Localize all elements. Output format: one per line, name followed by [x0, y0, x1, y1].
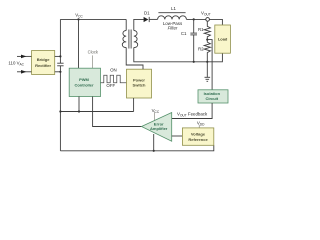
- op-amp error amplifier: [142, 113, 172, 142]
- bridge rectifier U1 box: [32, 51, 55, 75]
- voltage reference box: [182, 128, 213, 145]
- svg-text:Amplifier: Amplifier: [150, 126, 168, 131]
- wire vref to error amp: [172, 135, 183, 137]
- inductor L1 core line: [158, 12, 185, 14]
- junction PWM ground: [78, 110, 80, 112]
- resistor R1: [204, 21, 210, 39]
- wire isolation to feedback line: [172, 103, 212, 119]
- svg-text:Circuit: Circuit: [205, 96, 218, 101]
- junction C1 bottom: [193, 61, 195, 63]
- ground secondary: [205, 62, 211, 82]
- wire inductor to Vout: [186, 18, 205, 20]
- isolation circuit box: [198, 90, 228, 103]
- svg-text:Controller: Controller: [74, 82, 94, 87]
- svg-text:Voltage: Voltage: [191, 132, 206, 137]
- svg-text:Load: Load: [218, 37, 228, 42]
- transformer T1 core: [129, 30, 131, 49]
- svg-text:C1: C1: [181, 31, 187, 36]
- junction bridge minus: [59, 71, 61, 73]
- wire top rail Vcc: [60, 18, 126, 20]
- svg-text:Reference: Reference: [188, 137, 208, 142]
- inductor L1: [158, 16, 187, 20]
- node Vout open circle: [206, 18, 210, 22]
- wire Vcc to PWM: [78, 19, 80, 68]
- wire primary bottom to power switch: [126, 48, 143, 70]
- wire clock input: [92, 55, 94, 68]
- transformer T1 primary winding: [122, 31, 126, 48]
- svg-text:ON: ON: [110, 68, 117, 73]
- svg-text:Switch: Switch: [133, 83, 146, 88]
- wire PWM drive waveform: [101, 75, 127, 83]
- wire left rail upper: [59, 19, 61, 63]
- diode D1: [144, 17, 150, 22]
- wire diode to inductor: [149, 18, 157, 20]
- PWM controller U2 box: [69, 68, 100, 96]
- capacitor input filter: [57, 63, 63, 66]
- svg-text:OFF: OFF: [106, 83, 115, 88]
- wire error amp output to PWM: [93, 97, 142, 127]
- transformer T1 primary lead top: [125, 19, 127, 30]
- resistor R2: [204, 40, 210, 62]
- junction feedback tap: [206, 39, 208, 41]
- junction bridge plus: [59, 55, 61, 57]
- svg-text:D1: D1: [144, 10, 150, 15]
- svg-text:R2: R2: [198, 46, 204, 51]
- power switch Q1 box: [127, 69, 152, 98]
- svg-text:Filter: Filter: [168, 26, 178, 31]
- wire secondary top to diode: [134, 19, 144, 30]
- wire error amp ground stub: [153, 134, 155, 151]
- capacitor C1: [190, 19, 197, 61]
- load box: [215, 25, 231, 53]
- wire Vcc stub error amp: [154, 112, 156, 121]
- node Vcc junction: [77, 18, 79, 20]
- wire AC input top arrow: [17, 55, 32, 59]
- wire feedback tap to isolation: [207, 40, 212, 90]
- junction ground rail left: [59, 110, 61, 112]
- svg-text:Clock: Clock: [88, 49, 99, 54]
- wire bridge output plus: [55, 55, 61, 57]
- junction C1 tap: [193, 18, 195, 20]
- wire secondary return rail: [134, 48, 223, 62]
- wire bridge output minus: [55, 71, 61, 73]
- svg-text:L1: L1: [171, 6, 176, 11]
- svg-text:R1: R1: [198, 27, 204, 32]
- wire primary ground rail: [60, 111, 133, 113]
- wire left rail lower: [59, 66, 61, 151]
- wire PWM ground leg: [78, 97, 80, 112]
- wire power switch to primary ground: [133, 98, 135, 112]
- wire Vdd stub: [198, 125, 200, 128]
- svg-text:Bridge: Bridge: [37, 57, 50, 62]
- transformer T1 secondary winding: [134, 31, 138, 48]
- svg-text:Rectifier: Rectifier: [35, 63, 51, 68]
- wire bottom rail: [60, 145, 213, 151]
- junction error amp ground: [153, 150, 155, 152]
- junction R2 bottom: [206, 61, 208, 63]
- svg-text:Power: Power: [133, 77, 145, 82]
- wire AC input bottom arrow: [17, 70, 32, 74]
- wire Vout to load: [209, 19, 222, 25]
